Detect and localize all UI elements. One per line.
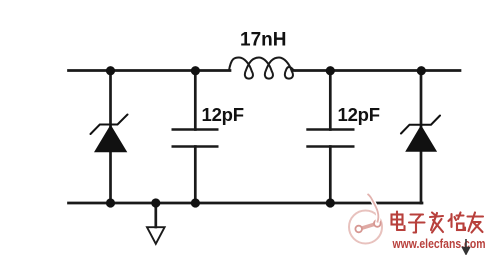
char dian	[392, 212, 405, 231]
TVS diode D1 (left)	[91, 115, 128, 153]
svg-text:12pF: 12pF	[202, 104, 244, 125]
svg-text:12pF: 12pF	[338, 104, 380, 125]
TVS diode D2 (right)	[401, 116, 440, 152]
char you	[468, 213, 484, 233]
node top rail / C1	[191, 66, 200, 75]
wire ground stub	[154, 203, 157, 227]
wire capacitor C2 branch lower	[329, 147, 332, 204]
node top rail / right diode	[417, 66, 426, 75]
ground symbol	[147, 227, 165, 244]
svg-text:17nH: 17nH	[240, 30, 286, 51]
node bottom rail / ground	[151, 198, 160, 207]
wire capacitor C1 branch upper	[194, 71, 197, 130]
node top rail / C2	[326, 66, 335, 75]
wire top rail right segment	[293, 69, 460, 72]
watermark logo circle	[349, 194, 382, 244]
char shao	[449, 213, 466, 231]
wire capacitor C1 branch lower	[194, 147, 197, 204]
node bottom rail / C2	[326, 198, 335, 207]
wire bottom rail	[69, 202, 423, 205]
wire capacitor C2 branch upper	[329, 71, 332, 130]
down arrow mark	[463, 239, 470, 254]
capacitor C1 plates	[172, 130, 219, 147]
node top rail / left diode	[106, 66, 115, 75]
watermark text dianzifashaoyou	[392, 212, 484, 233]
node bottom rail / left diode	[106, 198, 115, 207]
wire top rail left segment	[69, 69, 231, 72]
wire right diode branch	[420, 71, 423, 204]
wire left diode branch	[109, 71, 112, 204]
char zi	[409, 215, 425, 233]
node bottom rail / C1	[191, 198, 200, 207]
inductor L 17nH coil	[229, 58, 295, 79]
char fa	[430, 213, 443, 233]
capacitor C2 plates	[306, 130, 354, 147]
svg-text:www.elecfans.com: www.elecfans.com	[392, 237, 486, 251]
